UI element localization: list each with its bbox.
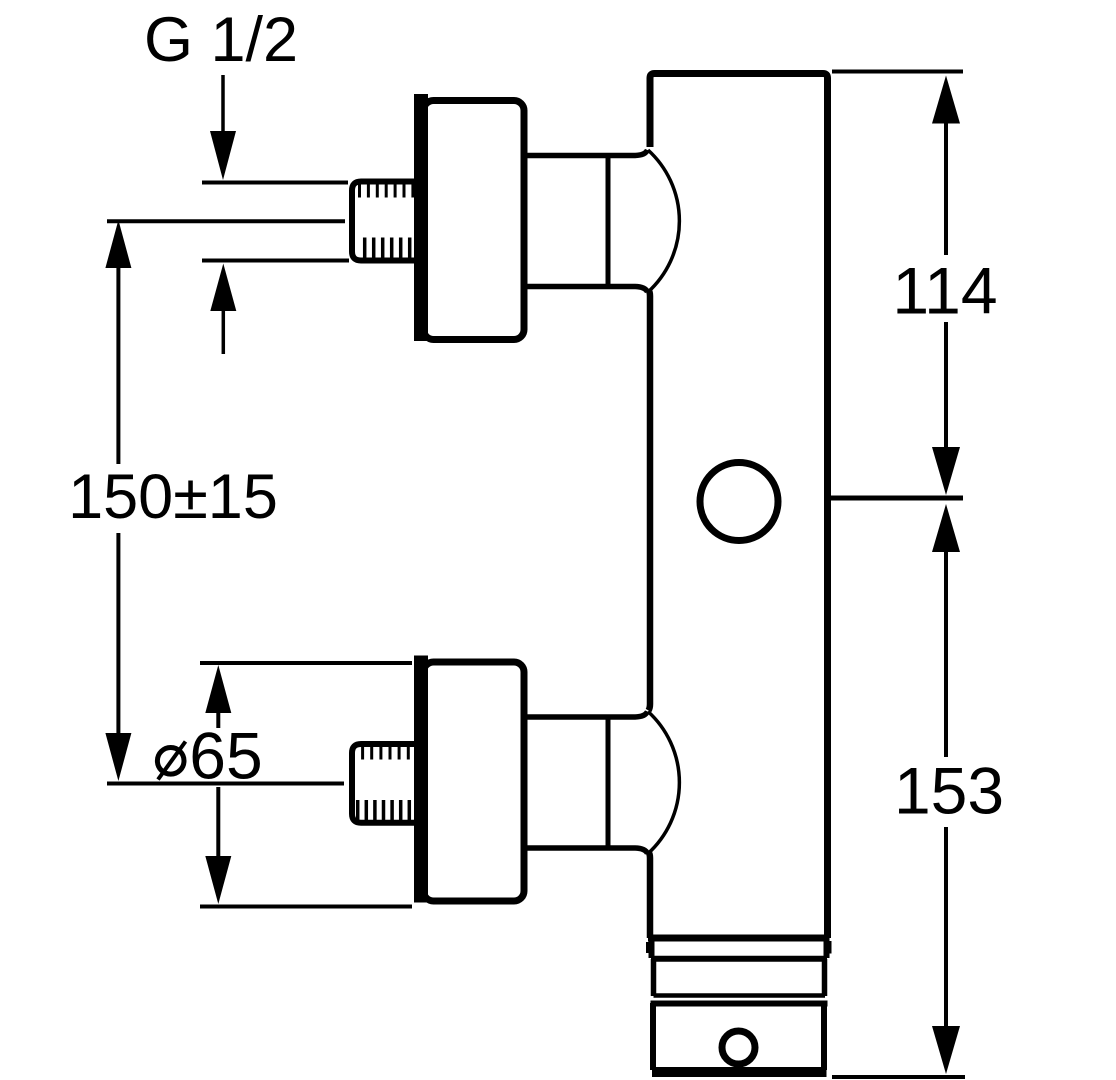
G1/2 upper pointer arrow (down)	[210, 75, 236, 180]
right bottom extension line	[832, 1075, 965, 1079]
thread ticks top	[363, 747, 409, 760]
dimension 150±15 arrow down	[105, 533, 131, 781]
top threaded nipple	[352, 182, 421, 261]
dimension 153 arrow up	[932, 504, 960, 757]
thread ticks bottom	[358, 800, 410, 820]
thread ticks top	[360, 184, 413, 198]
ø65 bottom extension line	[200, 905, 412, 909]
dimension 150±15 arrow up	[105, 220, 131, 464]
bottom threaded nipple	[352, 744, 421, 823]
band1 bottom line	[651, 956, 827, 962]
thread-bottom extension line	[202, 259, 349, 263]
svg-text:153: 153	[894, 754, 1004, 828]
bottom fitting center line	[107, 782, 344, 786]
svg-text:G 1/2: G 1/2	[144, 5, 298, 75]
body left edge below bottom nut	[649, 852, 651, 938]
body bottom line	[648, 935, 829, 942]
dimension 153 arrow down	[932, 827, 960, 1074]
main body outline	[650, 74, 828, 939]
svg-text:65: 65	[189, 719, 262, 793]
band1 side notches	[648, 941, 830, 954]
label ø65 diameter symbol	[157, 742, 185, 780]
bottom union nut bulge	[648, 712, 679, 854]
bottom escutcheon flange	[414, 656, 524, 903]
top union pipe lines	[527, 150, 648, 156]
top union nut face	[606, 153, 611, 289]
cap bottom thick edge	[652, 1067, 827, 1077]
right middle extension line	[831, 496, 963, 501]
bottom union pipe lines	[527, 712, 648, 718]
dimension 114 arrow down	[932, 322, 960, 495]
bottom union nut face	[606, 715, 611, 851]
band2 bottom line	[654, 993, 826, 998]
cap edges	[653, 1003, 824, 1070]
band1 edges	[652, 938, 827, 958]
body left edge between nuts	[649, 290, 651, 711]
G1/2 lower pointer arrow (up)	[210, 264, 236, 355]
thread ticks bottom	[365, 238, 410, 259]
cap hole circle	[722, 1031, 755, 1064]
top escutcheon flange	[414, 94, 524, 341]
cap top line	[651, 1001, 828, 1007]
body hole circle	[700, 463, 778, 541]
ø65 top extension line	[200, 661, 412, 665]
right top extension line	[832, 70, 963, 74]
top fitting center line	[107, 219, 345, 223]
ø65 dimension arrow down	[205, 787, 231, 904]
svg-text:150±15: 150±15	[68, 462, 278, 532]
svg-text:114: 114	[892, 254, 997, 328]
band2 edges	[654, 959, 825, 996]
top union nut bulge	[648, 150, 679, 292]
thread-top extension line	[202, 181, 348, 185]
dimension 114 arrow up	[932, 76, 960, 256]
ø65 dimension arrow up	[205, 665, 231, 728]
